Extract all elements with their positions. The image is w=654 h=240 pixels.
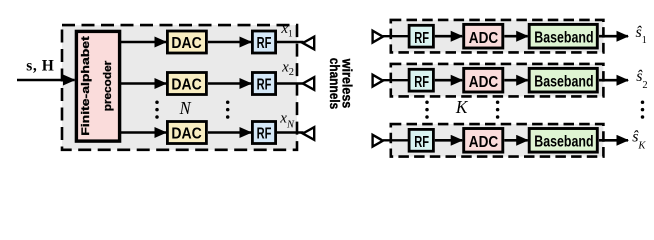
svg-text:wirelesschannels: wirelesschannels <box>327 58 356 110</box>
svg-text:RF: RF <box>414 30 429 47</box>
svg-text:ADC: ADC <box>469 74 499 91</box>
svg-text:x1: x1 <box>280 21 292 39</box>
svg-text:N: N <box>179 98 192 118</box>
svg-text:DAC: DAC <box>171 125 202 142</box>
svg-text:RF: RF <box>257 35 272 52</box>
svg-text:Baseband: Baseband <box>534 74 593 91</box>
svg-text:RF: RF <box>257 126 272 143</box>
svg-text:RF: RF <box>414 134 429 151</box>
svg-text:ŝ1: ŝ1 <box>636 24 647 46</box>
svg-text:s, H: s, H <box>26 57 54 74</box>
svg-text:DAC: DAC <box>171 35 202 52</box>
svg-text:Baseband: Baseband <box>534 30 593 47</box>
svg-text:DAC: DAC <box>171 76 202 93</box>
svg-text:ADC: ADC <box>469 30 499 47</box>
svg-text:Baseband: Baseband <box>534 134 593 151</box>
svg-text:ADC: ADC <box>469 134 499 151</box>
svg-text:RF: RF <box>257 77 272 94</box>
svg-text:RF: RF <box>414 74 429 91</box>
svg-text:ŝ2: ŝ2 <box>636 68 647 91</box>
svg-text:ŝK: ŝK <box>632 128 646 151</box>
svg-text:K: K <box>455 97 468 117</box>
